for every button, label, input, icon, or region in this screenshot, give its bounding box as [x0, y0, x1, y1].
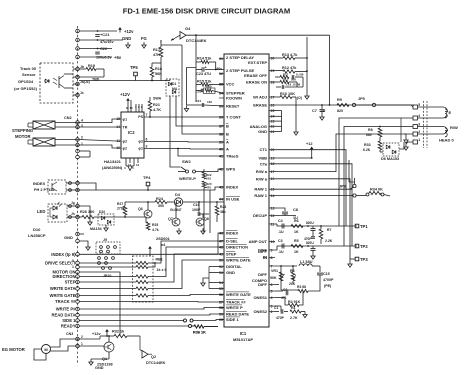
svg-text:R21: R21 — [153, 103, 160, 107]
svg-text:7: 7 — [271, 264, 273, 268]
svg-text:R26 300: R26 300 — [80, 210, 94, 214]
IC2 bottom pins — [125, 158, 127, 166]
svg-text:φ1: φ1 — [123, 117, 128, 121]
svg-text:TRACK ##: TRACK ## — [55, 299, 76, 304]
svg-text:100u6.3v: 100u6.3v — [96, 56, 113, 60]
svg-text:4: 4 — [81, 119, 83, 123]
resistor R27 270k — [123, 206, 127, 215]
svg-text:C16 .1U.86: C16 .1U.86 — [286, 83, 301, 87]
svg-text:44: 44 — [219, 197, 223, 201]
svg-text:14: 14 — [116, 125, 120, 129]
svg-text:R8: R8 — [368, 128, 373, 132]
wire SW2 to WPS — [196, 169, 225, 172]
op-amp U2 IC2 HA13421 body — [121, 112, 144, 158]
svg-text:3: 3 — [271, 304, 273, 308]
svg-text:DTC144EK: DTC144EK — [146, 361, 166, 365]
index sensor box — [48, 180, 66, 194]
wire RWa row to head pin2 — [275, 134, 413, 172]
ground analog — [295, 129, 297, 132]
svg-text:20: 20 — [271, 148, 275, 152]
svg-text:WRITE DATE: WRITE DATE — [226, 258, 251, 263]
transistor Q6 — [144, 210, 152, 218]
svg-text:CN3: CN3 — [66, 332, 73, 336]
svg-text:Track 00: Track 00 — [20, 66, 37, 71]
svg-text:(O): (O) — [297, 96, 302, 100]
svg-text:32: 32 — [219, 72, 223, 76]
svg-text:R17: R17 — [283, 73, 289, 77]
svg-text:56K: 56K — [155, 72, 162, 76]
svg-text:50K: 50K — [270, 276, 277, 280]
svg-text:INDEX: INDEX — [33, 181, 46, 186]
svg-text:4700P: 4700P — [323, 278, 334, 282]
svg-text:DIRECTION: DIRECTION — [226, 245, 248, 250]
svg-text:1K: 1K — [294, 230, 299, 234]
wire sensor bus to TP6 — [79, 80, 135, 82]
svg-text:C8: C8 — [293, 208, 298, 212]
test point TP3 — [355, 257, 359, 261]
wire CTa row — [275, 164, 352, 246]
diode pack D6 MA153 — [383, 143, 399, 156]
svg-text:Q6: Q6 — [138, 207, 143, 211]
wire VBB row — [275, 157, 312, 159]
resistor R23 36k — [215, 206, 219, 215]
jumper on SIDE1 row — [184, 319, 187, 322]
svg-text:6.2K: 6.2K — [363, 148, 371, 152]
wire WRITE P to pin 58 — [79, 308, 224, 310]
jumper block JP10 — [98, 257, 101, 260]
svg-text:+12: +12 — [306, 142, 312, 146]
head coil RW winding — [443, 126, 448, 130]
svg-text:25: 25 — [271, 109, 275, 113]
svg-text:56K: 56K — [291, 78, 296, 82]
diode pack D2 MA153 — [98, 214, 114, 225]
svg-text:E: E — [449, 110, 452, 115]
svg-text:DIFF: DIFF — [258, 272, 267, 277]
svg-text:47u/16v: 47u/16v — [100, 40, 114, 44]
resistor array RB1 box — [133, 256, 154, 302]
svg-text:15: 15 — [271, 188, 275, 192]
test point TP1 — [355, 224, 359, 228]
svg-text:C1: C1 — [274, 306, 278, 310]
sensor LED symbol — [45, 79, 49, 83]
motor coil A — [33, 121, 55, 129]
wire IC2 phi2 to IC1 pin39 — [149, 141, 224, 144]
svg-text:Q7: Q7 — [168, 217, 173, 221]
svg-text:4.7K: 4.7K — [153, 108, 161, 112]
ground IC2 — [126, 166, 134, 171]
svg-text:C2: C2 — [283, 288, 287, 292]
wire pin7 row — [275, 265, 297, 267]
svg-text:5: 5 — [271, 289, 273, 293]
resistor R18 56K — [150, 67, 154, 77]
wire +6v row — [79, 56, 112, 58]
wire TRACK to pin 57 — [79, 301, 224, 304]
ground TP3 — [349, 261, 351, 264]
svg-text:JP3: JP3 — [339, 185, 346, 189]
svg-text:AMP OUT: AMP OUT — [249, 239, 268, 244]
connector edge dashed line — [77, 26, 79, 363]
svg-text:820U: 820U — [306, 241, 314, 245]
svg-text:JP10: JP10 — [103, 274, 111, 278]
wire Q2 out — [148, 353, 152, 355]
svg-text:+C21: +C21 — [100, 32, 110, 37]
svg-text:Jb: Jb — [80, 65, 84, 69]
wire Q8 collector — [202, 214, 204, 218]
svg-text:24: 24 — [271, 115, 275, 119]
svg-text:STEP: STEP — [65, 280, 76, 285]
svg-text:R30: R30 — [206, 85, 212, 89]
wire DRIVE SELECT 0 to pin 47 — [79, 262, 136, 264]
svg-text:27: 27 — [271, 95, 275, 99]
wires LED — [67, 205, 79, 207]
op-amp U1 IC1 M51017AP body — [224, 54, 269, 327]
svg-text:GND: GND — [122, 36, 131, 41]
jumper on SIDE1 row — [184, 319, 187, 322]
wire head pin5 row — [405, 104, 411, 106]
svg-text:Jg: Jg — [71, 201, 75, 205]
svg-text:2: 2 — [271, 310, 273, 314]
svg-text:SW2: SW2 — [182, 159, 191, 164]
svg-text:CT1: CT1 — [259, 147, 267, 152]
svg-text:FD-1 EME-156 DISK DRIVE CIRCUI: FD-1 EME-156 DISK DRIVE CIRCUIT DIAGRAM — [123, 6, 291, 15]
wire analog gnd bracket — [275, 110, 282, 112]
svg-text:EG MOTOR: EG MOTOR — [2, 347, 25, 352]
wire bus row80 right — [135, 80, 152, 82]
wire DRIVE SELECT 1 — [79, 266, 136, 268]
svg-text:4.7k: 4.7k — [152, 228, 159, 232]
svg-text:C7: C7 — [312, 109, 317, 113]
wire SIDE 1 to pin 60 — [79, 320, 184, 322]
svg-text:M51017AP: M51017AP — [233, 337, 253, 342]
svg-text:14: 14 — [271, 194, 275, 198]
svg-text:R25: R25 — [152, 223, 158, 227]
svg-text:R7: R7 — [327, 228, 331, 232]
transistor Q7 — [172, 218, 180, 226]
svg-text:16: 16 — [130, 106, 134, 110]
ground rc cluster — [186, 106, 188, 109]
svg-text:IN: IN — [263, 255, 267, 260]
svg-text:WRITE GATE: WRITE GATE — [226, 292, 251, 297]
wire amp row2 — [275, 246, 357, 250]
capacitor C21 — [95, 34, 100, 36]
svg-text:WRITE GATE: WRITE GATE — [50, 293, 76, 298]
connector pin top2 — [76, 38, 80, 42]
wire jumper vertical from D6 area — [354, 178, 356, 184]
svg-text:R18: R18 — [155, 67, 162, 71]
svg-text:47K: 47K — [153, 53, 160, 57]
head coil E winding — [443, 107, 448, 112]
svg-text:2.2K: 2.2K — [325, 239, 333, 243]
diode pack D1 MA153 — [166, 79, 179, 96]
connector pins CN2 — [76, 121, 80, 125]
svg-text:TP5: TP5 — [130, 65, 138, 70]
wire D6 link — [380, 151, 383, 153]
wire STEP to pin 49 — [79, 281, 136, 283]
wire CN2 pin3 to IC2 pin14 — [79, 126, 116, 128]
svg-text:P.DOWN: P.DOWN — [226, 96, 242, 101]
svg-text:+12v: +12v — [124, 29, 134, 34]
connector pins sensor — [76, 67, 80, 71]
svg-text:Q2: Q2 — [151, 355, 156, 359]
svg-text:CN2: CN2 — [64, 116, 72, 120]
wire CN3 to Q1 — [79, 345, 104, 347]
svg-text:3: 3 — [146, 145, 148, 149]
capacitor C22 — [95, 51, 100, 53]
svg-text:R10 10K: R10 10K — [280, 92, 295, 96]
svg-text:1K: 1K — [294, 250, 299, 254]
svg-text:FG: FG — [141, 36, 147, 41]
svg-text:10: 10 — [271, 240, 275, 244]
svg-text:VBB: VBB — [259, 156, 268, 161]
capacitor C15 4700P — [319, 266, 321, 272]
ground bracket digital gnd pins — [208, 267, 210, 289]
wire head pin4 row — [418, 117, 444, 119]
wire MOTOR ON — [79, 272, 120, 336]
svg-text:GND: GND — [64, 235, 73, 240]
wires EG motor — [51, 339, 80, 347]
ground LED row — [89, 219, 91, 222]
svg-text:B: B — [226, 124, 229, 129]
svg-text:GND: GND — [95, 366, 104, 370]
svg-text:52: 52 — [219, 265, 223, 269]
svg-text:Sensor: Sensor — [22, 72, 36, 77]
svg-text:(AN6250N): (AN6250N) — [102, 165, 123, 170]
svg-text:RAW 1: RAW 1 — [254, 193, 267, 198]
wire vertical mid bus2 — [182, 45, 224, 134]
svg-text:TP3: TP3 — [360, 257, 368, 262]
svg-text:(or GP1S52): (or GP1S52) — [14, 86, 38, 91]
svg-text:R9: R9 — [337, 98, 342, 102]
wire INDEX signal to pin 46 — [79, 233, 224, 254]
svg-text:33: 33 — [219, 82, 223, 86]
wire bias row 202 — [125, 201, 155, 203]
svg-text:VR1: VR1 — [271, 269, 278, 273]
svg-text:TP4: TP4 — [143, 175, 151, 180]
wire C22 row — [79, 48, 112, 50]
svg-text:WI ADJ: WI ADJ — [253, 95, 267, 100]
svg-text:31: 31 — [219, 57, 223, 61]
svg-text:1U.86: 1U.86 — [296, 73, 304, 77]
svg-text:PH 2 PT431: PH 2 PT431 — [34, 188, 55, 192]
IC1 right pin stubs and labels — [246, 56, 275, 314]
supply arrow +12v — [119, 30, 121, 33]
connector pins index — [76, 181, 80, 185]
wire R10 end to ground — [295, 97, 297, 129]
test point TP5 — [134, 72, 138, 76]
IC2 right pins — [138, 113, 149, 151]
svg-text:IN USE: IN USE — [226, 197, 240, 202]
svg-text:15: 15 — [116, 117, 120, 121]
svg-text:INDEX: INDEX — [226, 185, 239, 190]
svg-text:26: 26 — [271, 103, 275, 107]
svg-text:WPS: WPS — [226, 167, 235, 172]
wire rail R14 column — [195, 35, 197, 102]
wire TRaeS — [178, 149, 224, 157]
svg-text:1k x 6: 1k x 6 — [157, 268, 167, 272]
svg-text:+12v: +12v — [92, 332, 101, 336]
wire IC2 PS to IC1 T CONT — [149, 116, 224, 118]
svg-text:JP5: JP5 — [358, 97, 365, 101]
wire vertical mid bus1 — [176, 96, 224, 126]
svg-text:12: 12 — [271, 214, 275, 218]
svg-text:A: A — [226, 140, 229, 145]
svg-text:100P: 100P — [192, 208, 201, 212]
svg-text:φ2: φ2 — [123, 146, 128, 150]
svg-text:ERASE ON: ERASE ON — [246, 80, 267, 85]
svg-text:A: A — [226, 147, 229, 152]
wire sensor lead Jb — [64, 73, 73, 75]
svg-text:2: 2 — [81, 136, 83, 140]
wire head3 branch — [379, 126, 381, 128]
wire D1 top feed — [161, 80, 170, 82]
ground head — [405, 137, 407, 140]
wire D1 leg to SW2 — [170, 96, 181, 167]
svg-text:EXT.STEP: EXT.STEP — [248, 60, 267, 65]
svg-text:Jh: Jh — [71, 212, 75, 216]
ground ladder — [306, 93, 308, 96]
svg-text:DIFF: DIFF — [258, 249, 267, 254]
svg-text:RB1: RB1 — [156, 258, 163, 262]
svg-text:5: 5 — [418, 103, 420, 107]
svg-text:READY: READY — [61, 324, 76, 329]
ground CN row — [87, 244, 89, 247]
svg-text:TRaeS: TRaeS — [226, 154, 239, 159]
svg-text:Q8: Q8 — [204, 217, 209, 221]
head connector dashed boundary — [423, 101, 425, 148]
wire CN2 pin1 to IC2 pin10 — [79, 145, 116, 148]
jumper block J9 — [96, 242, 120, 254]
resistor R20 470 — [202, 181, 206, 188]
svg-text:28: 28 — [271, 80, 275, 84]
svg-text:R33: R33 — [364, 143, 371, 147]
svg-text:SIDE 1: SIDE 1 — [62, 318, 76, 323]
transistor G4 DTC144EK — [180, 32, 186, 40]
wires motor to CN2 — [55, 122, 79, 124]
svg-text:21: 21 — [271, 130, 275, 134]
svg-text:D10: D10 — [33, 227, 41, 232]
svg-text:WRITE P: WRITE P — [226, 305, 243, 310]
transistor Q1 2SD1198 — [104, 342, 114, 352]
svg-text:9: 9 — [271, 248, 273, 252]
svg-text:11: 11 — [116, 139, 120, 143]
transistor Q8 — [196, 218, 204, 226]
svg-text:22: 22 — [271, 125, 275, 129]
svg-text:19: 19 — [271, 156, 275, 160]
svg-text:INDEX (tp 9): INDEX (tp 9) — [51, 252, 76, 257]
IC2 left pins — [116, 117, 128, 150]
svg-text:2: 2 — [418, 130, 420, 134]
test point TP2 — [355, 244, 359, 248]
rc ladder row 87 — [281, 85, 283, 89]
svg-text:DIGITAL: DIGITAL — [226, 264, 242, 269]
svg-text:4: 4 — [271, 296, 273, 300]
svg-text:2SD601: 2SD601 — [156, 237, 170, 241]
svg-text:R36 1K: R36 1K — [193, 331, 206, 335]
svg-text:6: 6 — [271, 283, 273, 287]
wire G4 drop to erase row — [329, 35, 331, 105]
wire JP5 to head — [376, 104, 405, 106]
svg-text:7: 7 — [146, 113, 148, 117]
ground C7 — [321, 114, 323, 117]
svg-text:C24: C24 — [196, 99, 202, 103]
wires IC2 top pins — [127, 104, 129, 113]
svg-text:R/W: R/W — [450, 125, 458, 130]
svg-text:13: 13 — [136, 163, 140, 167]
svg-text:ONES2: ONES2 — [253, 309, 267, 314]
wire head pin1 ground — [406, 142, 413, 144]
svg-text:WRITE DATA: WRITE DATA — [50, 286, 76, 291]
svg-text:C23 47U: C23 47U — [196, 72, 211, 76]
svg-text:R23: R23 — [220, 205, 226, 209]
wire rail2 — [186, 67, 188, 105]
svg-text:ERASE OFF: ERASE OFF — [244, 73, 267, 78]
svg-text:PS: PS — [138, 115, 143, 119]
svg-text:C3: C3 — [278, 239, 283, 243]
svg-text:R5: R5 — [294, 239, 299, 243]
svg-text:READ DATE: READ DATE — [226, 312, 249, 317]
svg-text:RESET: RESET — [226, 104, 240, 109]
svg-text:R14 51k: R14 51k — [197, 56, 212, 60]
connector pin top3 — [76, 47, 80, 51]
svg-text:1: 1 — [72, 265, 74, 269]
svg-text:J9: J9 — [103, 238, 107, 242]
wire WRITE GATE to pin 56 — [79, 295, 136, 297]
wire TP row vertical — [209, 190, 211, 233]
svg-text:L1 68U: L1 68U — [300, 260, 313, 264]
wire jumper riser — [354, 172, 356, 179]
sensor phototransistor — [58, 76, 60, 88]
wire sensor lead Jc — [73, 94, 79, 96]
svg-text:35: 35 — [219, 104, 223, 108]
wire head pin2 row — [418, 133, 444, 135]
svg-text:54: 54 — [219, 281, 223, 285]
ground R1 — [304, 312, 306, 315]
svg-text:23: 23 — [271, 119, 275, 123]
wire RAW1 row R34 — [275, 195, 353, 197]
motor M symbol — [42, 345, 51, 354]
svg-text:300: 300 — [158, 204, 164, 208]
svg-text:G4: G4 — [185, 26, 191, 31]
wire head pin4 down — [339, 118, 413, 226]
svg-text:13: 13 — [271, 206, 275, 210]
svg-text:TR: TR — [123, 125, 128, 129]
svg-text:680: 680 — [366, 133, 372, 137]
svg-text:1: 1 — [81, 342, 83, 346]
svg-text:TRACK ##: TRACK ## — [226, 300, 246, 305]
jumper on READY row — [189, 325, 192, 328]
wire diff net — [280, 266, 282, 290]
svg-text:RAW 1: RAW 1 — [254, 187, 267, 192]
svg-text:φ2: φ2 — [138, 140, 143, 144]
wire index to IC1 pin43 — [79, 187, 224, 190]
svg-text:INDEX: INDEX — [226, 231, 239, 236]
wire RWa2 row — [275, 179, 350, 257]
svg-text:(PE): (PE) — [324, 284, 332, 288]
wire CN2 pin4 to IC2 pin15 — [79, 119, 116, 123]
svg-text:READ DATA: READ DATA — [51, 313, 75, 318]
rc ladder row 82 — [275, 81, 280, 83]
wire C21 row — [79, 39, 123, 41]
transistor Q2 DTC144EK — [142, 351, 148, 359]
connector pin top4 — [76, 55, 80, 59]
wire ladder right rail — [306, 37, 308, 93]
svg-text:1: 1 — [418, 138, 420, 142]
svg-text:φ1: φ1 — [138, 147, 143, 151]
svg-text:R1: R1 — [291, 306, 296, 310]
svg-text:C4: C4 — [278, 219, 283, 223]
svg-text:18: 18 — [271, 162, 275, 166]
connector pins LED — [76, 204, 80, 208]
